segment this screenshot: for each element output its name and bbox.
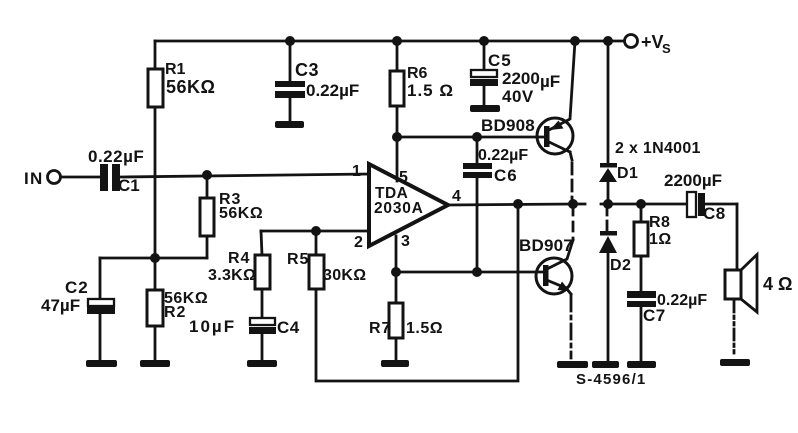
capacitor C8 — [664, 171, 726, 223]
svg-text:BD907: BD907 — [519, 236, 573, 255]
svg-text:40V: 40V — [502, 87, 534, 106]
node rail/C3 — [285, 36, 295, 46]
node output/diodes — [603, 199, 613, 209]
svg-text:IN: IN — [24, 169, 44, 188]
wire output line — [448, 204, 737, 205]
svg-text:10µF: 10µF — [189, 317, 236, 336]
svg-text:1.5 Ω: 1.5 Ω — [407, 81, 454, 100]
node pin3/base junction — [391, 267, 401, 277]
svg-text:56KΩ: 56KΩ — [219, 205, 263, 222]
svg-text:C7: C7 — [643, 306, 666, 325]
wire pin5 — [396, 137, 399, 181]
svg-text:BD908: BD908 — [481, 116, 535, 135]
wire pin2 line — [261, 230, 369, 233]
svg-text:2200: 2200 — [502, 69, 540, 88]
svg-text:1Ω: 1Ω — [649, 231, 672, 248]
ground D2 — [592, 361, 619, 368]
svg-text:30KΩ: 30KΩ — [323, 267, 366, 284]
node input/R3 junction — [202, 170, 212, 180]
transistor Q2 BD907 — [519, 206, 573, 294]
node output/feedback — [513, 199, 523, 209]
capacitor C4 — [189, 317, 300, 360]
svg-text:S-4596/1: S-4596/1 — [576, 371, 646, 388]
label 2x1N4001 — [615, 140, 701, 157]
wire BD907 emitter to ground (broken) — [570, 296, 573, 358]
diode D1 — [599, 41, 638, 204]
svg-text:47µF: 47µF — [41, 296, 80, 315]
node rail/R6 — [392, 36, 402, 46]
svg-text:0.22µF: 0.22µF — [306, 81, 359, 100]
svg-text:R6: R6 — [407, 65, 428, 82]
svg-text:D1: D1 — [617, 165, 638, 182]
capacitor C3 — [275, 41, 359, 122]
ground C3 — [275, 121, 304, 128]
ground speaker — [720, 359, 750, 366]
svg-text:2030A: 2030A — [374, 200, 424, 217]
ground R7 — [381, 360, 409, 367]
node R6/pin5/base junction — [392, 132, 402, 142]
capacitor C1 — [88, 147, 144, 195]
wire BD908 base line — [397, 136, 545, 139]
terminal +Vs — [625, 32, 672, 56]
node C6/base2 junction — [472, 267, 482, 277]
transistor Q1 BD908 — [481, 41, 575, 154]
resistor R1 — [148, 41, 215, 107]
svg-text:C6: C6 — [494, 166, 518, 185]
node output/BD pair — [568, 199, 578, 209]
svg-text:µF: µF — [540, 72, 560, 91]
wire speaker to ground (broken) — [733, 301, 736, 357]
node output/R8 — [636, 199, 646, 209]
svg-text:0.22µF: 0.22µF — [478, 147, 528, 164]
svg-text:C4: C4 — [277, 318, 300, 337]
node bias junction — [150, 253, 160, 263]
node rail/BD908 — [570, 36, 580, 46]
svg-text:R8: R8 — [649, 214, 670, 231]
resistor R4 — [208, 231, 270, 318]
resistor R7 — [369, 272, 443, 360]
svg-text:C2: C2 — [65, 278, 89, 297]
resistor R5 — [287, 231, 366, 289]
wire bias node horizontal — [100, 257, 207, 260]
svg-text:0.22µF: 0.22µF — [88, 147, 144, 166]
wire pin3 — [395, 236, 398, 272]
wire feedback loop — [316, 204, 518, 381]
svg-text:R7: R7 — [369, 320, 391, 337]
svg-text:56KΩ: 56KΩ — [166, 77, 215, 97]
ground C4 — [247, 360, 277, 367]
svg-text:C5: C5 — [488, 51, 512, 70]
svg-text:D2: D2 — [610, 257, 631, 274]
svg-text:5: 5 — [399, 169, 408, 186]
capacitor C7 — [627, 291, 707, 361]
node pin2/R5 — [311, 226, 321, 236]
svg-text:C3: C3 — [295, 60, 319, 80]
svg-text:R1: R1 — [165, 61, 186, 78]
svg-text:2 x 1N4001: 2 x 1N4001 — [615, 140, 701, 157]
wire top supply rail — [155, 40, 624, 43]
label S-4596/1 — [576, 371, 646, 388]
svg-text:2: 2 — [354, 234, 363, 251]
ground R2 — [140, 360, 170, 367]
svg-text:R5: R5 — [287, 251, 309, 268]
input terminal IN — [24, 169, 61, 188]
svg-text:+V: +V — [641, 32, 664, 52]
speaker LS1 — [725, 255, 792, 313]
capacitor C6 — [463, 137, 528, 272]
resistor R8 — [634, 204, 672, 291]
capacitor C2 — [41, 258, 115, 360]
svg-text:4: 4 — [452, 188, 461, 205]
resistor R3 — [200, 175, 263, 258]
node base-line/C6 — [472, 132, 482, 142]
ground C5 — [470, 105, 500, 112]
wire input line — [61, 174, 369, 177]
svg-text:1: 1 — [352, 163, 361, 180]
wire BD908 emitter to output (broken) — [570, 152, 572, 204]
capacitor C5 — [470, 41, 560, 106]
svg-text:2200µF: 2200µF — [664, 171, 722, 190]
svg-text:S: S — [662, 41, 671, 56]
node rail/C5 — [479, 36, 489, 46]
svg-text:1.5Ω: 1.5Ω — [406, 320, 443, 337]
resistor R6 — [390, 41, 454, 137]
svg-text:4 Ω: 4 Ω — [763, 274, 792, 294]
svg-text:3.3KΩ: 3.3KΩ — [208, 267, 256, 284]
wire R1 bottom to bias node — [154, 107, 157, 258]
svg-text:C8: C8 — [703, 204, 726, 223]
wire to speaker — [736, 204, 739, 270]
op-amp U1 TDA2030A — [352, 163, 461, 251]
diode D2 — [599, 206, 631, 361]
svg-text:R4: R4 — [228, 250, 250, 267]
node rail/D1 — [603, 36, 613, 46]
ground C2 — [86, 360, 117, 367]
svg-text:C1: C1 — [118, 176, 140, 195]
svg-text:3: 3 — [401, 233, 410, 250]
wire BD907 base line — [396, 271, 545, 274]
ground BD907 — [557, 361, 588, 368]
resistor R2 — [147, 258, 208, 360]
ground C7 — [627, 361, 656, 368]
svg-text:R2: R2 — [164, 304, 186, 321]
